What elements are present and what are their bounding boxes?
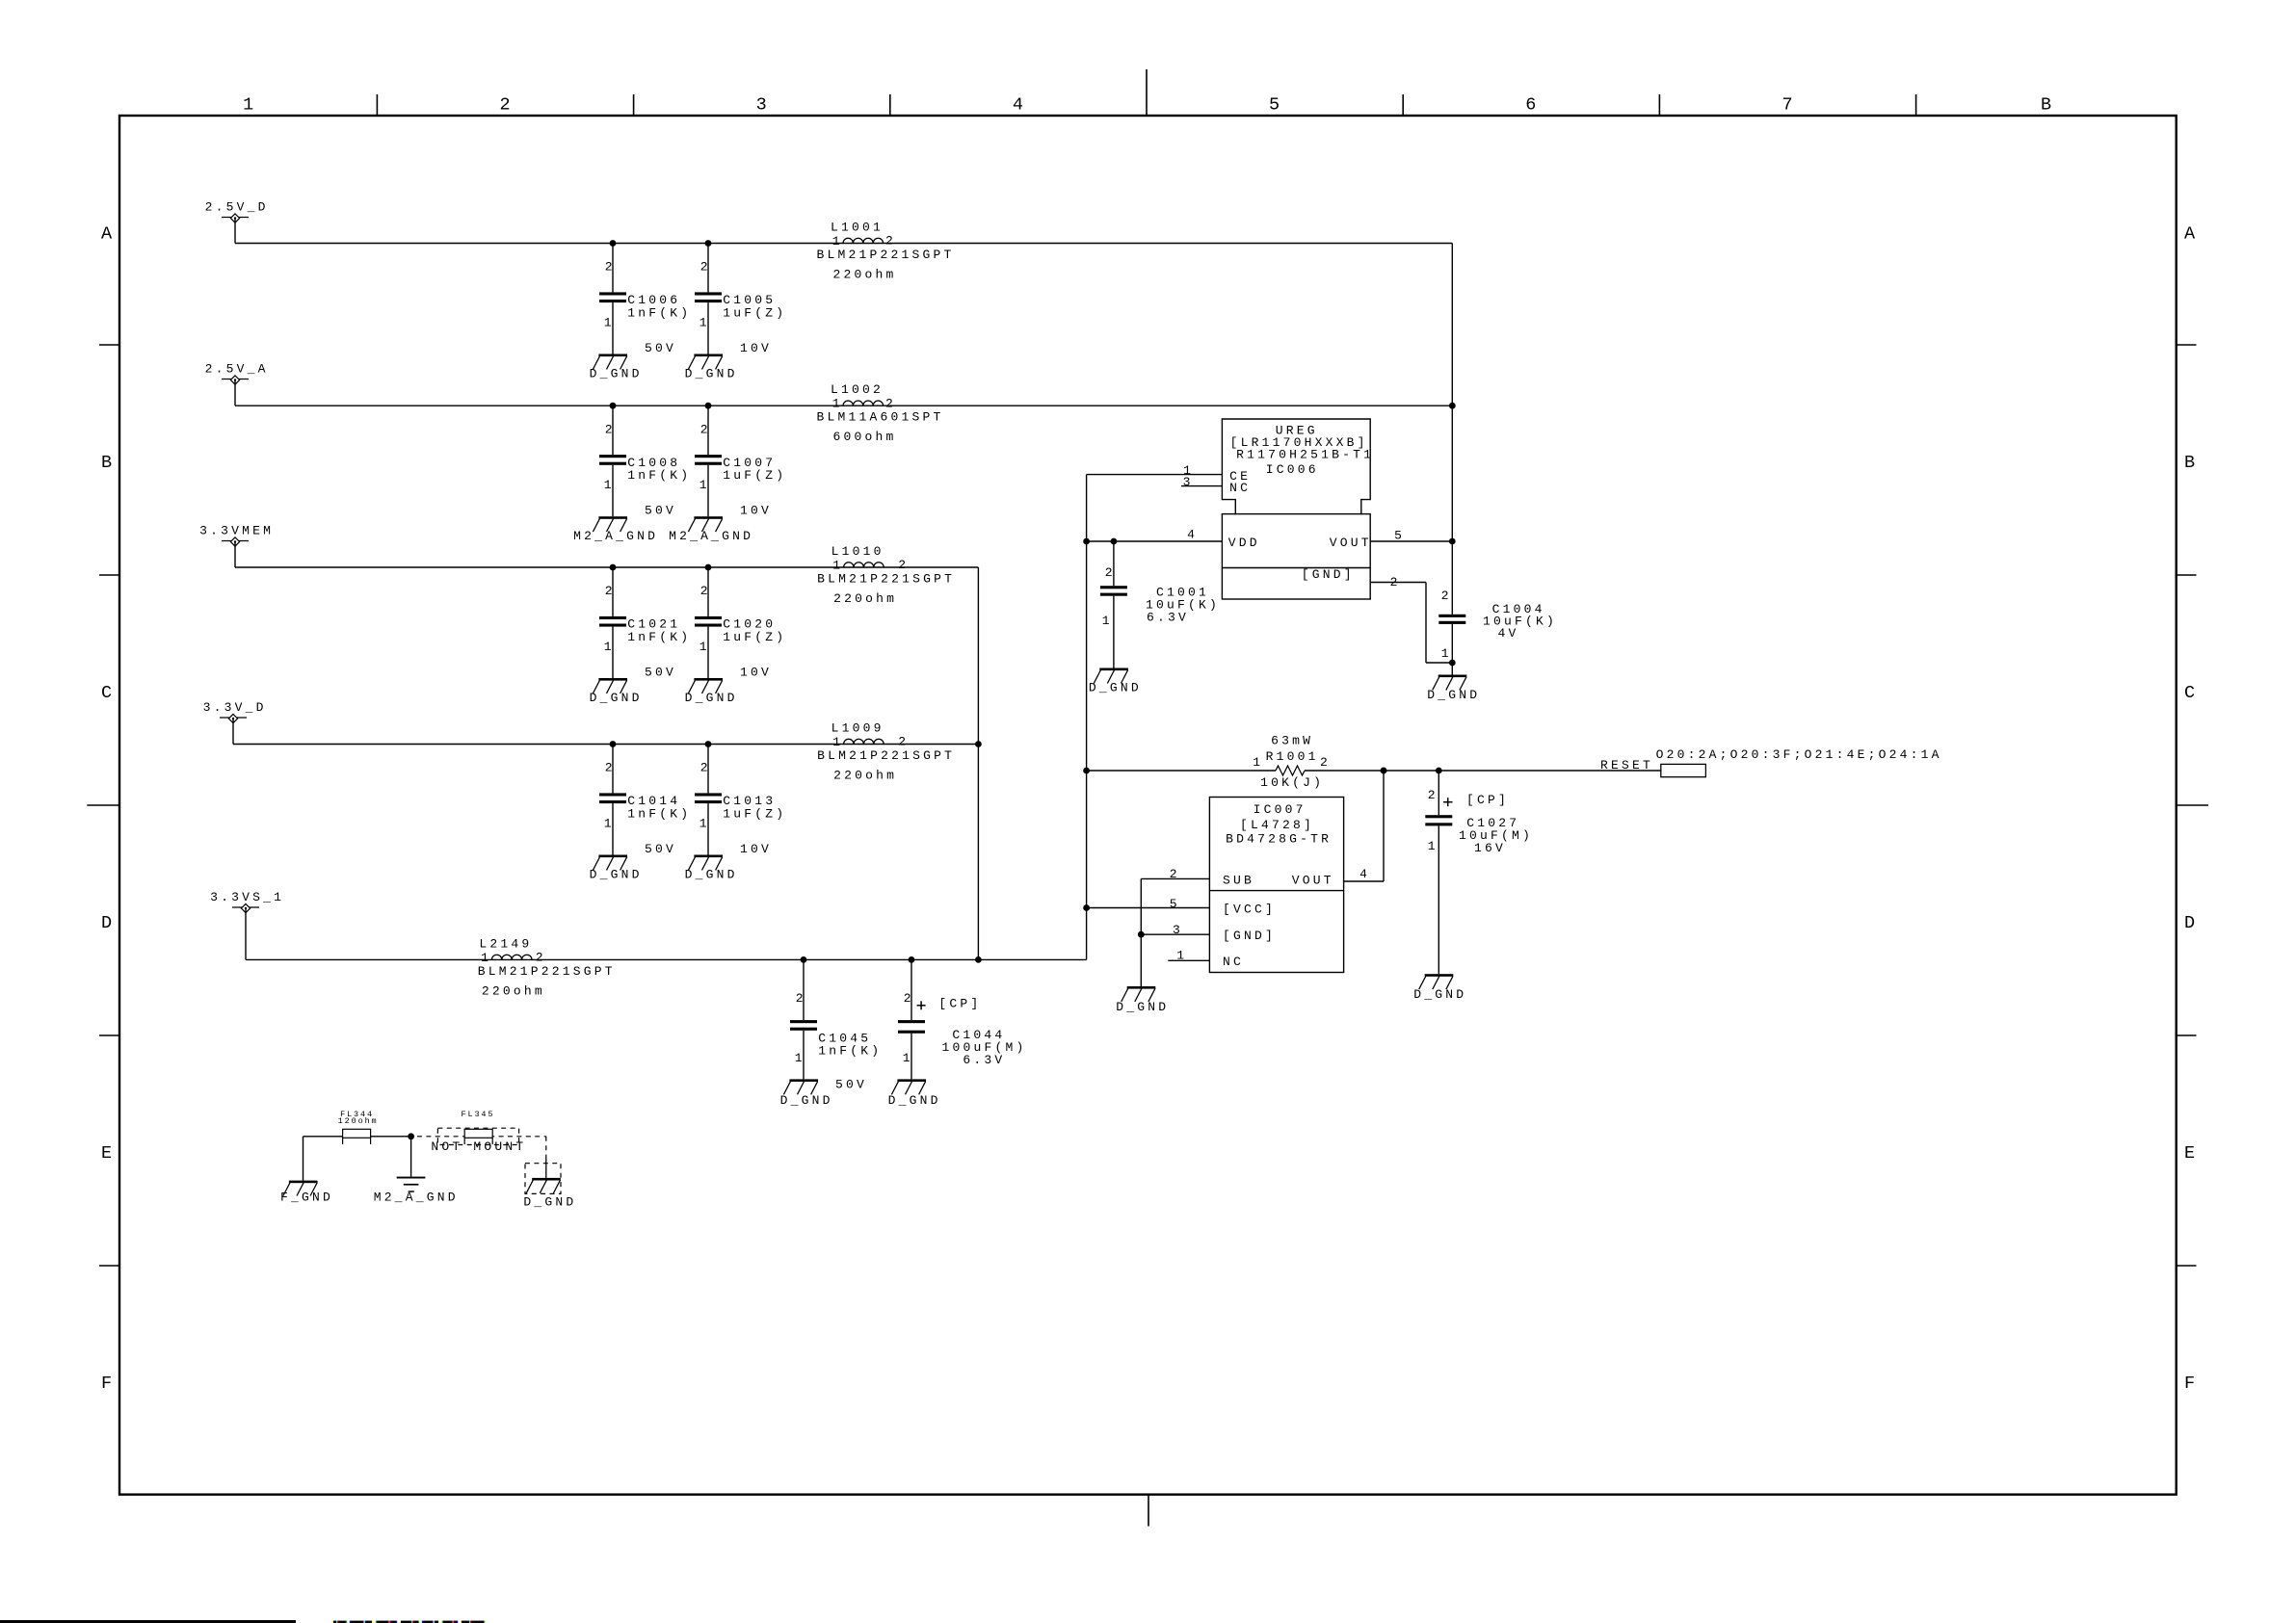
svg-text:600ohm: 600ohm (833, 430, 897, 444)
svg-text:6.3V: 6.3V (963, 1053, 1005, 1067)
svg-text:[CP]: [CP] (1466, 793, 1509, 807)
svg-text:2: 2 (700, 422, 711, 436)
svg-text:1: 1 (604, 316, 615, 330)
svg-text:50V: 50V (645, 341, 676, 355)
svg-text:1: 1 (1441, 646, 1452, 661)
svg-text:BLM21P221SGPT: BLM21P221SGPT (817, 572, 955, 587)
svg-text:1: 1 (1176, 949, 1187, 963)
svg-text:2: 2 (898, 735, 909, 749)
svg-text:4: 4 (1013, 95, 1023, 116)
svg-text:D_GND: D_GND (590, 691, 643, 705)
svg-text:1: 1 (699, 478, 710, 492)
svg-text:D_GND: D_GND (685, 691, 738, 705)
svg-text:2: 2 (885, 396, 896, 410)
svg-text:2: 2 (605, 584, 616, 598)
svg-text:D_GND: D_GND (1427, 688, 1480, 702)
svg-text:2: 2 (605, 260, 616, 275)
svg-text:1uF(Z): 1uF(Z) (723, 468, 786, 483)
svg-text:VOUT: VOUT (1330, 536, 1372, 550)
svg-text:1: 1 (604, 817, 615, 831)
svg-text:3.3VMEM: 3.3VMEM (199, 524, 274, 538)
svg-text:2.5V_D: 2.5V_D (205, 200, 269, 215)
svg-text:1: 1 (1428, 839, 1438, 853)
svg-text:4: 4 (1187, 528, 1198, 542)
svg-text:1nF(K): 1nF(K) (627, 305, 691, 320)
svg-text:D_GND: D_GND (685, 867, 738, 881)
svg-text:VOUT: VOUT (1292, 874, 1334, 888)
svg-text:1: 1 (832, 559, 843, 573)
svg-text:50V: 50V (645, 504, 676, 518)
svg-text:D_GND: D_GND (888, 1093, 941, 1108)
svg-text:F: F (2184, 1374, 2195, 1394)
svg-text:L1009: L1009 (831, 721, 884, 736)
svg-text:1uF(Z): 1uF(Z) (723, 630, 786, 644)
svg-text:10V: 10V (740, 842, 772, 856)
svg-text:1nF(K): 1nF(K) (627, 468, 691, 483)
svg-text:2: 2 (1390, 575, 1401, 589)
svg-text:7: 7 (1781, 95, 1792, 116)
svg-text:D_GND: D_GND (685, 366, 738, 380)
svg-text:3.3VS_1: 3.3VS_1 (210, 890, 284, 904)
svg-text:D: D (101, 913, 112, 933)
svg-text:1: 1 (832, 735, 843, 749)
svg-text:5: 5 (1269, 95, 1280, 116)
svg-text:BD4728G-TR: BD4728G-TR (1226, 832, 1332, 847)
svg-text:IC007: IC007 (1254, 802, 1306, 817)
svg-text:10V: 10V (740, 341, 772, 355)
svg-text:RESET: RESET (1600, 758, 1653, 772)
svg-text:5: 5 (1394, 529, 1405, 543)
svg-text:O20:2A;O20:3F;O21:4E;O24:1A: O20:2A;O20:3F;O21:4E;O24:1A (1656, 747, 1942, 762)
svg-text:2: 2 (904, 991, 914, 1006)
svg-text:1: 1 (699, 817, 710, 831)
svg-text:L1010: L1010 (831, 544, 884, 559)
svg-text:A: A (2184, 224, 2196, 245)
svg-text:1: 1 (832, 234, 843, 249)
svg-text:2: 2 (1170, 867, 1180, 881)
svg-text:120ohm: 120ohm (338, 1116, 379, 1126)
svg-text:1nF(K): 1nF(K) (627, 806, 691, 821)
svg-text:[VCC]: [VCC] (1223, 903, 1276, 917)
svg-text:B: B (101, 453, 112, 473)
svg-text:2: 2 (796, 991, 806, 1006)
svg-text:L1002: L1002 (831, 382, 884, 397)
svg-text:10V: 10V (740, 665, 772, 679)
svg-text:2: 2 (1320, 755, 1331, 770)
svg-text:16V: 16V (1474, 841, 1506, 855)
svg-text:2: 2 (1428, 788, 1438, 802)
svg-text:D_GND: D_GND (1116, 1000, 1169, 1014)
svg-text:3: 3 (1173, 923, 1183, 937)
svg-text:1: 1 (699, 316, 710, 330)
svg-text:1: 1 (903, 1051, 913, 1065)
svg-text:[GND]: [GND] (1223, 929, 1276, 943)
svg-text:E: E (101, 1143, 112, 1164)
svg-text:5: 5 (1170, 897, 1180, 911)
svg-text:L1001: L1001 (831, 221, 884, 235)
svg-text:220ohm: 220ohm (833, 769, 897, 783)
svg-text:1: 1 (604, 478, 615, 492)
svg-text:2: 2 (499, 95, 510, 116)
svg-text:2: 2 (700, 761, 711, 775)
svg-text:1uF(Z): 1uF(Z) (723, 305, 786, 320)
svg-text:1uF(Z): 1uF(Z) (723, 806, 786, 821)
svg-text:1: 1 (699, 640, 710, 654)
svg-text:SUB: SUB (1223, 874, 1254, 888)
svg-text:[L4728]: [L4728] (1240, 818, 1314, 832)
svg-text:1: 1 (243, 95, 253, 116)
svg-text:3: 3 (756, 95, 767, 116)
svg-text:D_GND: D_GND (590, 867, 643, 881)
svg-text:R1001: R1001 (1266, 749, 1319, 764)
svg-text:BLM11A601SPT: BLM11A601SPT (817, 410, 944, 425)
svg-text:1: 1 (604, 640, 615, 654)
svg-text:2: 2 (605, 761, 616, 775)
svg-text:F: F (101, 1374, 112, 1394)
svg-text:10V: 10V (740, 504, 772, 518)
svg-text:3.3V_D: 3.3V_D (203, 700, 267, 715)
svg-text:B: B (2041, 95, 2051, 116)
svg-text:NC: NC (1229, 481, 1251, 495)
svg-text:10K(J): 10K(J) (1260, 775, 1324, 790)
svg-text:D_GND: D_GND (590, 366, 643, 380)
svg-text:4: 4 (1359, 867, 1370, 881)
svg-text:B: B (2184, 453, 2195, 473)
svg-text:NOT MOUNT: NOT MOUNT (431, 1139, 526, 1154)
svg-text:1nF(K): 1nF(K) (818, 1044, 882, 1059)
svg-text:C: C (101, 683, 112, 703)
svg-text:[CP]: [CP] (938, 996, 981, 1010)
svg-text:A: A (101, 224, 113, 245)
svg-text:2: 2 (700, 260, 711, 275)
svg-text:4V: 4V (1498, 626, 1519, 641)
svg-text:BLM21P221SGPT: BLM21P221SGPT (817, 748, 955, 763)
svg-text:2: 2 (898, 558, 909, 572)
svg-text:1: 1 (1102, 614, 1113, 628)
svg-text:1: 1 (481, 951, 491, 965)
svg-text:10uF(K): 10uF(K) (1483, 615, 1557, 629)
svg-text:1nF(K): 1nF(K) (627, 630, 691, 644)
svg-text:2: 2 (536, 951, 546, 965)
svg-text:50V: 50V (645, 842, 676, 856)
svg-text:50V: 50V (835, 1078, 867, 1092)
svg-text:C: C (2184, 683, 2195, 703)
svg-text:L2149: L2149 (479, 936, 532, 951)
svg-text:M2_A_GND: M2_A_GND (573, 529, 658, 543)
svg-text:2: 2 (885, 234, 896, 249)
svg-text:FL345: FL345 (462, 1110, 495, 1119)
svg-text:F_GND: F_GND (280, 1191, 333, 1205)
svg-text:VDD: VDD (1228, 536, 1260, 550)
svg-text:D_GND: D_GND (780, 1093, 833, 1108)
svg-text:2: 2 (1105, 565, 1116, 580)
svg-text:BLM21P221SGPT: BLM21P221SGPT (817, 248, 955, 262)
svg-text:6.3V: 6.3V (1147, 611, 1189, 625)
svg-text:E: E (2184, 1143, 2195, 1164)
svg-text:2.5V_A: 2.5V_A (205, 362, 269, 377)
svg-text:BLM21P221SGPT: BLM21P221SGPT (478, 964, 616, 979)
svg-text:1: 1 (795, 1051, 805, 1065)
svg-text:[GND]: [GND] (1302, 567, 1355, 582)
svg-text:D_GND: D_GND (1413, 987, 1466, 1002)
svg-text:M2_A_GND: M2_A_GND (374, 1191, 459, 1205)
svg-text:IC006: IC006 (1266, 462, 1319, 477)
svg-text:1: 1 (832, 397, 843, 411)
svg-text:2: 2 (700, 584, 711, 598)
svg-text:R1170H251B-T1: R1170H251B-T1 (1236, 448, 1374, 462)
svg-text:220ohm: 220ohm (833, 268, 897, 282)
svg-text:50V: 50V (645, 665, 676, 679)
svg-text:220ohm: 220ohm (482, 983, 545, 998)
svg-text:NC: NC (1223, 955, 1244, 969)
svg-text:D_GND: D_GND (1089, 681, 1142, 695)
svg-text:63mW: 63mW (1271, 734, 1313, 748)
svg-text:M2_A_GND: M2_A_GND (669, 529, 753, 543)
svg-text:2: 2 (605, 422, 616, 436)
svg-text:220ohm: 220ohm (833, 591, 897, 606)
svg-text:D: D (2184, 913, 2195, 933)
svg-text:1: 1 (1253, 755, 1263, 770)
svg-text:D_GND: D_GND (523, 1194, 576, 1209)
svg-text:2: 2 (1441, 589, 1452, 603)
svg-text:6: 6 (1525, 95, 1536, 116)
svg-text:3: 3 (1183, 475, 1194, 489)
